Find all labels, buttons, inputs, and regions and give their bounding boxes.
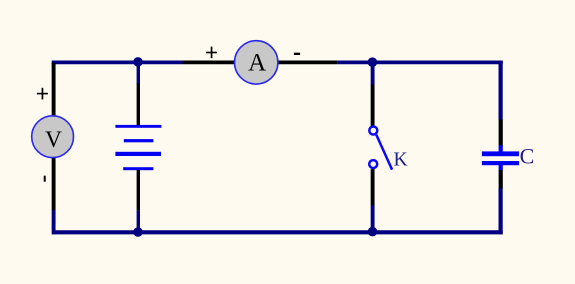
wire left vertical lower (navy stub to bottom corner) — [52, 210, 56, 235]
label + (ammeter positive) — [206, 47, 217, 59]
switch K bottom lead (black) — [371, 169, 375, 205]
battery top lead (black) — [137, 83, 140, 125]
junction top (battery tap) — [133, 57, 143, 67]
svg-text:V: V — [45, 127, 62, 153]
label - (voltmeter negative, rotated tick) — [44, 176, 46, 182]
ammeter A right lead — [276, 60, 337, 64]
switch K upper contact — [369, 127, 377, 135]
junction bottom (battery return) — [133, 227, 143, 237]
junction top (switch tap) — [368, 57, 378, 67]
capacitor C plates — [482, 145, 519, 170]
label - (ammeter negative) — [294, 53, 300, 55]
voltmeter V body — [32, 116, 74, 158]
wire right vertical upper (corner to capacitor) — [499, 61, 503, 120]
junction bottom (switch return) — [368, 227, 378, 237]
svg-text:A: A — [248, 50, 266, 77]
switch K blade (open) — [376, 135, 392, 170]
wire right vertical lower (capacitor to bottom corner) — [499, 188, 503, 234]
battery bottom lead (black) — [137, 170, 140, 211]
capacitor C bottom lead — [499, 170, 503, 189]
wire bottom horizontal — [52, 230, 503, 234]
voltmeter V top lead — [52, 63, 56, 116]
svg-text:C: C — [520, 144, 535, 169]
battery B1 plates — [115, 125, 161, 170]
ammeter A left lead — [183, 60, 237, 64]
switch K top lead (black) — [371, 85, 375, 127]
ammeter A body — [235, 41, 278, 84]
capacitor C top lead — [499, 119, 503, 146]
battery bottom wire (navy) — [137, 211, 140, 230]
switch K lower contact — [369, 160, 377, 168]
wire top-left horizontal (node top-left corner to ammeter) — [52, 60, 183, 64]
wire top-right horizontal (ammeter to right corner) — [337, 60, 502, 64]
switch bottom wire (navy) — [371, 205, 375, 230]
voltmeter V bottom lead — [52, 158, 56, 210]
switch top wire (navy) — [371, 64, 375, 85]
battery top wire (navy) — [137, 64, 140, 84]
label + (voltmeter positive) — [37, 88, 48, 100]
svg-text:K: K — [394, 150, 408, 171]
